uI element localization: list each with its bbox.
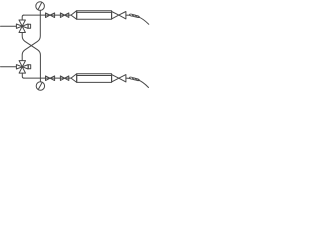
wire crossover line L2 (top valve to bottom header) xyxy=(22,33,40,79)
valve V4 (outlet bowtie, top) xyxy=(112,12,126,19)
gauge PI1 stem xyxy=(39,10,41,15)
valve V1 (4-way cross valve, top-left) xyxy=(16,20,30,33)
gauge PI2 stem xyxy=(39,78,41,82)
hose squiggle top (coiled loops) xyxy=(129,14,139,18)
vessel T1 inner element line xyxy=(77,11,112,13)
hose tail bottom xyxy=(138,80,149,88)
wire crossover line L1 (top header to bottom valve) xyxy=(22,15,40,60)
hose tail top xyxy=(138,17,149,25)
wire valve V1 top port up to top header (rounded corner) xyxy=(22,15,24,20)
valve V7 (bowtie) xyxy=(60,76,68,81)
valve V6 (bowtie) xyxy=(46,76,55,81)
wire top inlet line xyxy=(1,25,17,27)
wire top outlet stub xyxy=(126,14,130,16)
valve V5 (4-way cross valve, bottom-left) xyxy=(16,61,30,74)
wire top header line xyxy=(24,14,72,16)
gauge PI1 (circle with needle) xyxy=(36,2,45,11)
vessel T1 body xyxy=(77,11,112,20)
wire bottom header line xyxy=(24,77,71,79)
vessel T2 body xyxy=(77,74,112,83)
valve V2 (bowtie) xyxy=(46,13,55,18)
vessel T2 inlet cone xyxy=(71,74,77,83)
wire bottom outlet stub xyxy=(126,77,130,79)
vessel T1 inlet cone xyxy=(71,11,77,20)
hose squiggle bottom (coiled loops) xyxy=(129,77,139,81)
valve V8 (outlet bowtie, bottom) xyxy=(112,75,126,82)
wire valve V5 bottom port down to bottom header (rounded corner) xyxy=(22,73,24,78)
gauge PI2 (circle with needle) xyxy=(36,82,44,90)
valve V3 (bowtie) xyxy=(60,13,68,18)
wire bottom inlet line xyxy=(1,66,17,68)
vessel T2 inner element line xyxy=(77,75,112,77)
